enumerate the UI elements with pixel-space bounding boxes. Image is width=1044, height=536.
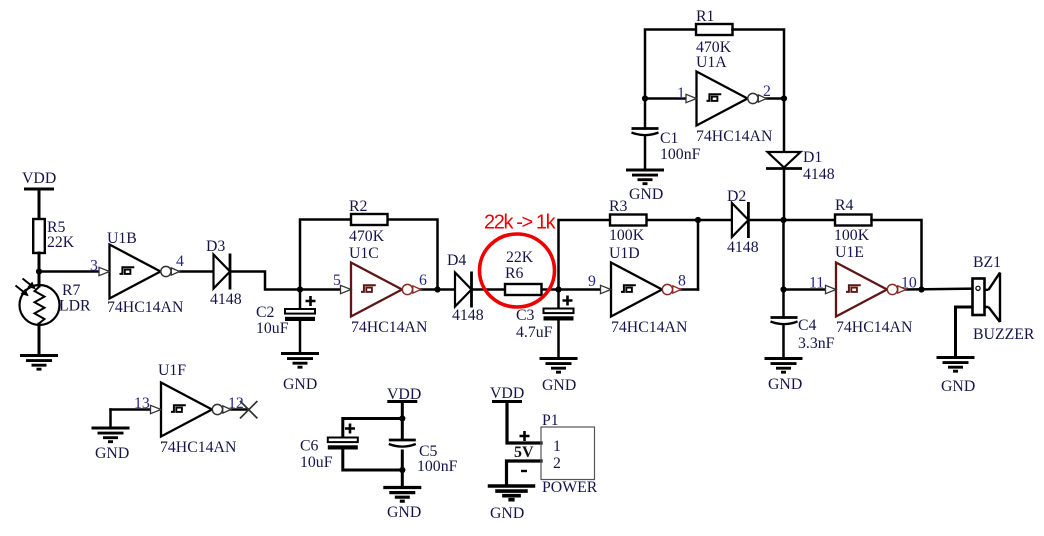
svg-text:POWER: POWER [542, 479, 598, 496]
svg-text:LDR: LDR [59, 298, 91, 315]
svg-text:10uF: 10uF [300, 454, 333, 471]
svg-text:4148: 4148 [803, 166, 835, 183]
svg-text:74HC14AN: 74HC14AN [351, 319, 428, 336]
svg-text:R1: R1 [696, 8, 714, 25]
svg-text:22K: 22K [47, 234, 75, 251]
svg-text:U1C: U1C [349, 245, 379, 262]
svg-text:GND: GND [542, 377, 576, 394]
svg-text:2: 2 [763, 83, 771, 100]
svg-text:R7: R7 [62, 282, 81, 299]
svg-text:GND: GND [768, 376, 802, 393]
svg-text:12: 12 [228, 395, 244, 412]
svg-text:R2: R2 [349, 198, 368, 215]
svg-text:470K: 470K [349, 228, 385, 245]
svg-text:22K: 22K [506, 249, 534, 266]
svg-text:GND: GND [387, 504, 421, 521]
svg-text:74HC14AN: 74HC14AN [611, 319, 688, 336]
svg-text:74HC14AN: 74HC14AN [160, 439, 237, 456]
svg-text:100nF: 100nF [660, 146, 701, 163]
svg-text:8: 8 [678, 273, 686, 290]
svg-text:4148: 4148 [727, 239, 759, 256]
svg-text:R4: R4 [835, 197, 854, 214]
svg-text:U1D: U1D [609, 245, 640, 262]
svg-text:GND: GND [629, 186, 663, 203]
svg-text:100nF: 100nF [417, 458, 458, 475]
svg-text:9: 9 [588, 273, 596, 290]
svg-text:BUZZER: BUZZER [973, 326, 1035, 343]
svg-text:R6: R6 [505, 265, 524, 282]
svg-text:VDD: VDD [387, 386, 421, 403]
svg-text:GND: GND [283, 376, 317, 393]
svg-text:3: 3 [90, 258, 98, 275]
svg-text:U1B: U1B [107, 230, 137, 247]
svg-text:6: 6 [419, 272, 427, 289]
svg-text:P1: P1 [542, 412, 559, 429]
svg-text:74HC14AN: 74HC14AN [107, 299, 184, 316]
svg-text:D1: D1 [803, 149, 822, 166]
svg-text:C6: C6 [300, 438, 319, 455]
svg-text:D4: D4 [447, 252, 466, 269]
svg-text:11: 11 [809, 275, 824, 292]
svg-text:4148: 4148 [210, 291, 242, 308]
svg-text:10uF: 10uF [256, 320, 289, 337]
svg-text:C1: C1 [660, 130, 678, 147]
svg-text:D3: D3 [206, 238, 225, 255]
svg-text:10: 10 [901, 275, 917, 292]
svg-text:VDD: VDD [22, 170, 56, 187]
svg-text:3.3nF: 3.3nF [798, 335, 835, 352]
svg-text:22k -> 1k: 22k -> 1k [484, 212, 557, 234]
svg-text:U1F: U1F [158, 362, 186, 379]
svg-text:5V: 5V [514, 444, 534, 461]
svg-text:100K: 100K [609, 227, 645, 244]
svg-text:GND: GND [490, 505, 524, 522]
svg-text:5: 5 [333, 272, 341, 289]
svg-text:1: 1 [677, 85, 685, 102]
svg-text:C3: C3 [516, 307, 535, 324]
svg-text:4.7uF: 4.7uF [516, 324, 553, 341]
svg-text:BZ1: BZ1 [973, 254, 1001, 271]
svg-text:74HC14AN: 74HC14AN [836, 319, 913, 336]
svg-text:13: 13 [134, 395, 150, 412]
svg-text:D2: D2 [727, 188, 746, 205]
svg-text:GND: GND [95, 445, 129, 462]
svg-text:2: 2 [553, 455, 561, 472]
svg-text:U1E: U1E [835, 244, 864, 261]
svg-text:U1A: U1A [696, 54, 727, 71]
svg-text:VDD: VDD [490, 385, 524, 402]
svg-text:C4: C4 [798, 317, 817, 334]
svg-text:C2: C2 [256, 304, 275, 321]
svg-text:100K: 100K [834, 227, 870, 244]
svg-text:GND: GND [941, 378, 975, 395]
svg-text:R3: R3 [609, 198, 628, 215]
svg-text:4: 4 [176, 253, 184, 270]
svg-text:74HC14AN: 74HC14AN [696, 128, 773, 145]
svg-text:4148: 4148 [452, 307, 484, 324]
svg-text:1: 1 [553, 438, 561, 455]
